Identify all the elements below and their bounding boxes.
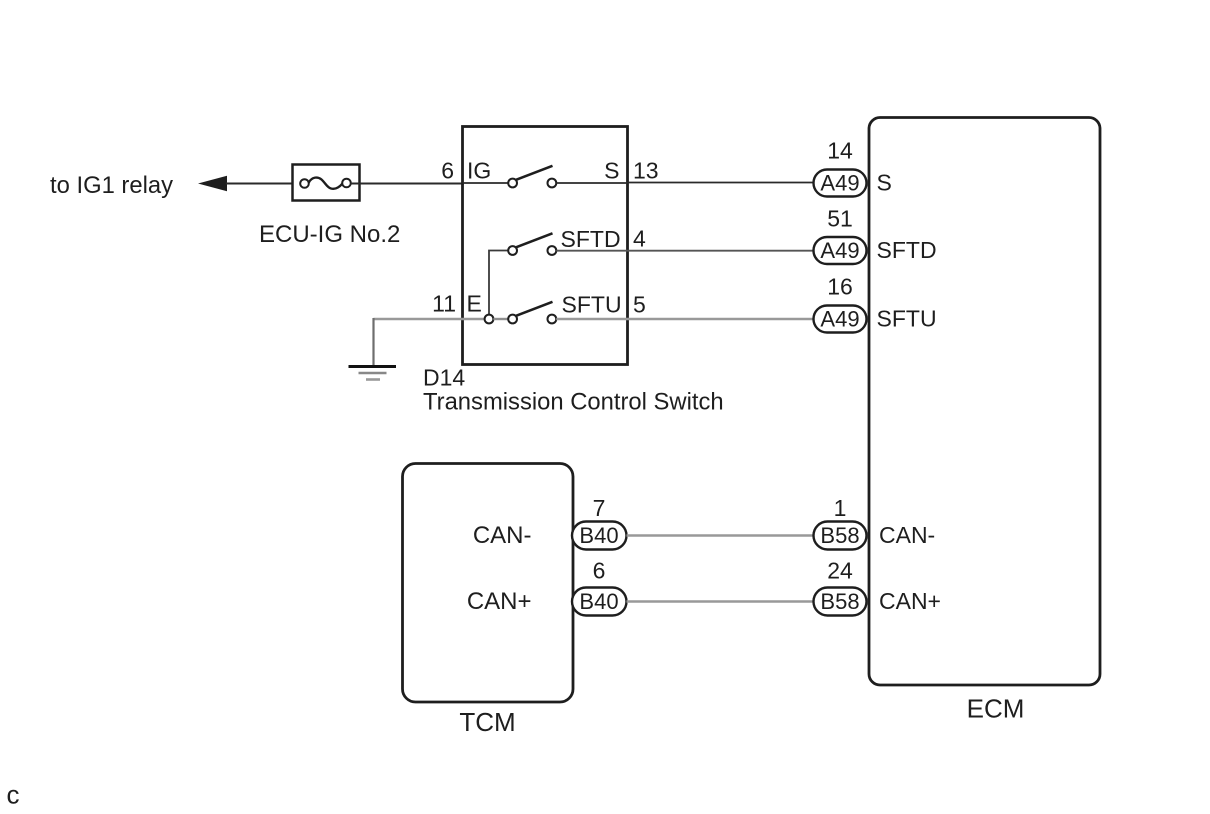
wire CAN- B40 to B58 (gray)	[627, 534, 815, 537]
wire arrow to fuse	[226, 183, 301, 185]
switch box D14	[463, 127, 628, 365]
svg-text:CAN+: CAN+	[879, 588, 941, 614]
connector B58 pin CAN-	[814, 522, 867, 550]
svg-text:TCM: TCM	[459, 707, 515, 737]
svg-text:B58: B58	[820, 523, 859, 548]
switch SFTD contact and lever	[508, 233, 556, 255]
wire drop to ground	[372, 318, 374, 366]
svg-text:SFTU: SFTU	[877, 306, 937, 332]
svg-text:1: 1	[834, 495, 847, 521]
svg-text:S: S	[877, 170, 892, 196]
svg-text:A49: A49	[820, 307, 859, 332]
svg-text:CAN+: CAN+	[467, 588, 532, 615]
connector B58 pin CAN+	[814, 588, 867, 616]
connector B40 pin CAN+	[572, 588, 627, 616]
svg-text:IG: IG	[467, 158, 491, 184]
svg-text:4: 4	[633, 226, 646, 252]
wire CAN+ B40 to B58 (gray)	[627, 600, 815, 603]
svg-text:D14: D14	[423, 365, 465, 391]
svg-text:E: E	[467, 291, 482, 317]
svg-text:A49: A49	[820, 171, 859, 196]
connector A49 pin S	[814, 170, 867, 197]
svg-text:13: 13	[633, 158, 659, 184]
svg-text:SFTD: SFTD	[561, 226, 621, 252]
svg-text:SFTU: SFTU	[562, 292, 622, 318]
svg-text:B58: B58	[820, 589, 859, 614]
connector B40 pin CAN-	[572, 522, 627, 550]
svg-text:c: c	[7, 780, 20, 810]
svg-text:ECM: ECM	[967, 694, 1025, 724]
svg-text:7: 7	[593, 495, 606, 521]
connector A49 pin SFTD	[814, 237, 867, 264]
wire SFTU(5) to ECM A49 (gray)	[627, 318, 814, 321]
svg-text:Transmission Control Switch: Transmission Control Switch	[423, 389, 724, 416]
svg-text:6: 6	[593, 558, 606, 584]
arrowhead to IG1 relay	[198, 176, 227, 191]
wire S(13) to ECM A49	[627, 182, 814, 184]
svg-text:to IG1 relay: to IG1 relay	[50, 172, 173, 199]
svg-text:51: 51	[827, 206, 853, 232]
svg-text:5: 5	[633, 292, 646, 318]
wire SFTU contact to box edge	[556, 318, 627, 321]
wire SFTD contact to box edge	[556, 250, 627, 252]
connector A49 pin SFTU	[814, 306, 867, 333]
svg-text:16: 16	[827, 274, 853, 300]
wire ground to E pin (gray)	[374, 318, 486, 320]
wire S contact to box edge	[556, 182, 627, 184]
switch S contact and lever	[508, 166, 556, 188]
svg-text:14: 14	[827, 138, 853, 164]
fuse ECU-IG No.2	[293, 165, 360, 201]
wire fuse to switch box	[350, 183, 464, 185]
node E junction	[485, 315, 494, 324]
svg-text:A49: A49	[820, 238, 859, 263]
wire IG to switch contact	[463, 182, 510, 184]
TCM box	[403, 464, 574, 703]
ground	[349, 367, 397, 380]
svg-text:11: 11	[432, 291, 456, 317]
ECM box	[869, 118, 1100, 686]
wire SFTD(4) to ECM A49	[627, 250, 814, 252]
svg-text:6: 6	[441, 158, 454, 184]
switch SFTU contact and lever	[508, 302, 556, 324]
svg-text:SFTD: SFTD	[877, 237, 937, 263]
wire E to SFTU contact	[493, 318, 509, 320]
svg-text:B40: B40	[579, 523, 618, 548]
wire stub E branch to SFTD contact	[489, 251, 509, 315]
svg-text:CAN-: CAN-	[879, 522, 935, 548]
svg-text:CAN-: CAN-	[473, 522, 532, 549]
svg-text:S: S	[604, 158, 619, 184]
svg-text:24: 24	[827, 558, 853, 584]
svg-text:B40: B40	[579, 589, 618, 614]
svg-text:ECU-IG No.2: ECU-IG No.2	[259, 221, 400, 248]
